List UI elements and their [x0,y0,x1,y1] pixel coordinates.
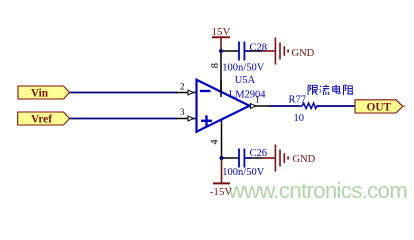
svg-text:LM2904: LM2904 [229,89,266,100]
svg-text:C28: C28 [250,43,268,54]
svg-text:R77: R77 [289,95,307,106]
svg-text:U5A: U5A [235,75,256,86]
svg-text:100n/50V: 100n/50V [222,167,264,178]
svg-text:C26: C26 [250,148,268,159]
svg-text:10: 10 [294,113,305,124]
svg-text:OUT: OUT [366,101,391,113]
svg-text:Vref: Vref [31,114,52,126]
svg-text:www.cntronics.com: www.cntronics.com [228,178,408,203]
svg-text:4: 4 [210,139,221,145]
svg-text:15V: 15V [212,26,231,38]
svg-text:GND: GND [292,48,315,59]
svg-text:100n/50V: 100n/50V [222,62,264,73]
svg-text:1: 1 [255,95,260,105]
svg-text:8: 8 [210,63,221,68]
svg-text:Vin: Vin [31,87,49,99]
svg-text:3: 3 [180,107,185,117]
svg-text:GND: GND [293,154,316,165]
svg-text:-15V: -15V [210,186,233,198]
svg-text:2: 2 [180,81,185,91]
